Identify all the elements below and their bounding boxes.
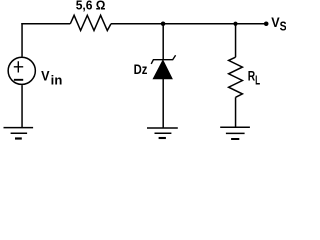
wire: top rail to output terminal (236, 23, 266, 25)
source V_in circle (8, 57, 35, 84)
source minus sign (14, 79, 23, 81)
resistor RL (vertical zigzag) (229, 57, 243, 97)
wire: RL branch bottom (235, 97, 237, 127)
svg-text:5,6 Ω: 5,6 Ω (76, 0, 106, 13)
svg-text:S: S (280, 19, 286, 34)
wire: RL branch top (235, 24, 237, 57)
wire: left vertical top (21, 23, 23, 57)
node terminal dot Vs (264, 21, 269, 26)
source plus sign (14, 61, 23, 72)
svg-text:V: V (271, 15, 279, 30)
ground (middle) (147, 128, 178, 138)
wire: left vertical bottom (21, 85, 23, 127)
ground (left) (4, 128, 34, 139)
wire: zener branch top (162, 24, 164, 60)
ground (right) (220, 127, 250, 139)
svg-text:L: L (255, 72, 260, 87)
node junction dot (zener branch) (161, 22, 166, 27)
zener diode Dz cathode bar with bent ends (151, 55, 175, 64)
svg-text:in: in (51, 74, 63, 88)
wire: top rail right segment (163, 23, 235, 25)
node junction dot (RL branch) (233, 22, 237, 26)
wire: top rail left segment (21, 23, 70, 25)
svg-text:V: V (41, 69, 49, 84)
svg-text:Dz: Dz (134, 62, 148, 77)
zener diode Dz triangle (anode) (153, 60, 172, 79)
wire: zener branch bottom (162, 79, 164, 128)
wire: top rail middle segment (111, 23, 163, 25)
resistor R 5,6 ohm (zigzag) (70, 15, 111, 30)
